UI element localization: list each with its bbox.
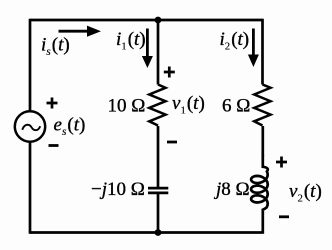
svg-text:6 Ω: 6 Ω	[222, 96, 250, 117]
source e_s circle	[15, 111, 45, 141]
polarity - for v_2	[279, 215, 289, 218]
resistor R2 6 ohm zigzag	[254, 85, 270, 126]
inductor L1 j8 ohm coil	[251, 155, 268, 234]
arrow i_1 (pointing down)	[146, 29, 149, 58]
wire middle branch mid (10ohm resistor to capacitor)	[157, 126, 160, 187]
svg-text:is(t): is(t)	[41, 35, 70, 58]
svg-text:v1(t): v1(t)	[172, 93, 205, 116]
resistor R1 10 ohm zigzag	[149, 85, 165, 126]
polarity + for v_2	[276, 157, 287, 168]
wire left vertical upper (corner to source top)	[29, 19, 32, 111]
svg-text:−j10 Ω: −j10 Ω	[91, 179, 145, 200]
arrow i_s (current direction, pointing right)	[59, 30, 89, 33]
svg-text:i2(t): i2(t)	[220, 29, 250, 52]
polarity + for v_1	[164, 67, 175, 78]
svg-text:j8 Ω: j8 Ω	[213, 179, 250, 200]
node junction dot top (middle branch meets top wire)	[155, 17, 162, 24]
arrow i_2 (pointing down)	[252, 29, 255, 56]
wire bottom from left corner to right corner	[30, 231, 263, 234]
polarity - for v_1	[167, 141, 177, 144]
wire middle branch lower (capacitor to bottom node)	[157, 194, 160, 233]
svg-text:es(t): es(t)	[54, 115, 86, 138]
capacitor C1 -j10 ohm plates	[148, 188, 168, 193]
polarity - for e_s	[49, 144, 59, 147]
wire middle branch upper (top node to 10ohm resistor)	[157, 20, 160, 85]
wire right branch upper (top right corner to 6ohm resistor)	[261, 19, 264, 85]
svg-text:10 Ω: 10 Ω	[108, 96, 146, 117]
wire right branch mid (6ohm resistor to inductor)	[261, 126, 264, 156]
node junction dot bottom (middle branch meets bottom wire)	[155, 229, 162, 236]
svg-text:i1(t): i1(t)	[116, 29, 146, 52]
svg-text:v2(t): v2(t)	[289, 181, 322, 204]
wire top from left corner to right corner	[30, 19, 263, 22]
source sine tilde	[22, 125, 40, 130]
wire left vertical lower (source bottom to corner)	[29, 142, 32, 234]
polarity + for e_s	[47, 98, 58, 109]
